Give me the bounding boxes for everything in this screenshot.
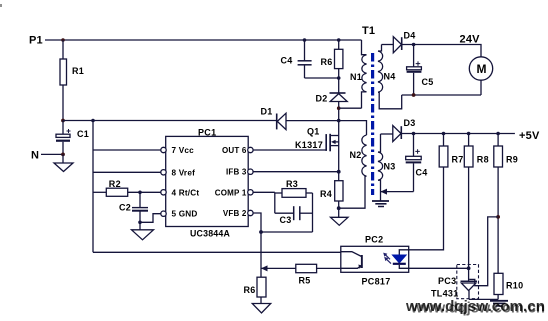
optocoupler PC2 box [341,235,409,287]
svg-text:R8: R8 [477,155,489,165]
wire R2 right lead to pin4 [128,191,161,193]
wire R2 left lead [93,191,106,193]
capacitor C1 [56,121,89,155]
winding N3 [378,134,396,201]
wire pin5 GND jog [140,214,161,223]
svg-text:R2: R2 [109,179,121,189]
wire D1 anode to drain node [286,120,339,122]
svg-text:+5V: +5V [519,130,540,142]
svg-text:N2: N2 [350,150,362,160]
wire C4 output return [381,191,414,193]
wire PC2 cathode to TL431 [409,267,469,269]
pin 1 COMP [215,188,253,197]
wire R5 left lead [261,267,296,269]
svg-text:C3: C3 [280,215,292,225]
ground below R4 [331,208,349,225]
svg-text:C2: C2 [119,203,131,213]
svg-text:VFB 2: VFB 2 [223,209,247,218]
svg-text:8 Vref: 8 Vref [172,168,196,177]
svg-text:T1: T1 [362,25,375,37]
svg-text:C5: C5 [422,77,434,87]
node N [31,150,39,162]
node R2/C2 junction [138,191,142,195]
resistor R1 [60,59,84,85]
wire pin7 Vcc [93,149,161,151]
pin 5 GND [161,210,198,219]
svg-text:TL431: TL431 [431,289,459,299]
node snubber/D2 junction [337,76,341,80]
svg-text:UC3844A: UC3844A [190,229,230,239]
svg-text:R1: R1 [72,66,84,76]
svg-text:C4: C4 [281,56,293,66]
node C5 bottom junction [412,93,416,97]
node VFB branch junction [259,230,263,234]
node R7 top junction [442,132,446,136]
resistor R7 [439,134,463,168]
capacitor C4 snubber [281,40,312,78]
transistor Q1 K1317 [295,121,339,172]
wire Vcc branch vertical [92,121,94,253]
wire N1 bottom to drain column [339,107,362,109]
winding N4 [378,45,402,109]
wire COMP to R3/C3 left bar [253,191,275,193]
svg-text:N3: N3 [384,162,396,172]
svg-text:7 Vcc: 7 Vcc [172,146,195,155]
wire R3/C3 left bar [274,192,276,213]
capacitor C5 [407,45,434,96]
wire R9 bottom to divider node [497,167,499,273]
node C1/N junction [61,153,65,157]
wire R8 bottom to TL431 cathode [468,167,470,281]
resistor R4 [320,172,343,209]
watermark [405,299,545,317]
svg-text:PC817: PC817 [362,277,391,287]
svg-text:PC2: PC2 [365,235,383,245]
pin 4 Rt/Ct [161,188,200,197]
svg-text:D1: D1 [261,107,273,117]
svg-text:IFB 3: IFB 3 [226,168,247,177]
wire N3 to D3 [381,133,393,135]
svg-text:COMP 1: COMP 1 [215,188,247,197]
node C1 top junction [61,119,65,123]
diode D3 [393,118,416,142]
svg-text:D4: D4 [404,31,416,41]
pin 7 Vcc [161,146,194,155]
node D2/N1 junction [337,106,341,110]
shunt regulator PC3 TL431 [431,265,479,300]
svg-text:D2: D2 [316,94,328,104]
resistor R5 [296,264,317,285]
ground below C2 [132,222,154,240]
wire C4 bottom to R6 bottom [305,77,339,79]
earth ground below R10 [490,301,508,306]
winding N1 [350,40,367,108]
node TL431 cathode junction [467,266,471,270]
svg-text:PC3: PC3 [438,276,456,286]
svg-text:R5: R5 [299,276,311,286]
ground below C1 [54,154,73,171]
resistor R6 lower [244,277,267,303]
svg-text:R9: R9 [506,155,518,165]
wire Vref long rail to PC2 [93,251,341,253]
svg-text:OUT 6: OUT 6 [222,146,247,155]
node C4 5V junction [412,132,416,136]
capacitor C3 [275,206,313,225]
svg-text:PC1: PC1 [198,127,216,137]
light arrows in PC2 [383,253,391,264]
svg-text:N: N [31,150,39,162]
wire R1 bottom lead [62,85,64,121]
motor M [469,57,492,95]
node N3 return arrow [381,189,388,195]
node P1 [29,35,43,47]
resistor R9 [494,134,518,168]
resistor R10 [494,273,523,299]
svg-text:C4: C4 [416,168,428,178]
node R9 top junction [496,132,500,136]
wire drain node to N2 top [339,121,367,135]
svg-text:R3: R3 [286,179,298,189]
wire 24V rail [402,45,481,57]
resistor R2 [106,179,127,196]
pin 6 OUT [222,146,253,155]
wire R7 bottom to PC2 anode [409,167,444,250]
wire VFB branch to right bar [261,231,313,233]
node R8 top junction [467,132,471,136]
node C4 snubber top junction [303,38,307,42]
wire top rail from P1 to T1 [45,39,362,41]
pin 3 IFB [226,168,253,177]
node R5 junction arrow [261,265,268,271]
wire R5 right lead to PC2 [317,267,341,269]
winding N2 [339,135,367,208]
svg-text:N4: N4 [384,72,396,82]
wire pin8 Vref [93,171,161,173]
node divider junction [496,215,500,219]
wire IFB to source node [253,171,339,173]
capacitor C4 output [406,134,428,192]
svg-text:4 Rt/Ct: 4 Rt/Ct [172,188,200,197]
svg-text:P1: P1 [29,35,43,47]
node source/R4 junction [337,170,341,174]
node Vcc branch junction [91,119,95,123]
wire N lead [41,153,63,155]
resistor R3 [275,179,313,197]
svg-text:24V: 24V [460,34,481,46]
pin 8 Vref [161,168,195,177]
svg-text:C1: C1 [77,129,89,139]
node R6 snubber top junction [337,38,341,42]
svg-text:R10: R10 [506,281,523,291]
pin 2 VFB [223,209,253,218]
wire TL431 anode rail [469,298,498,300]
capacitor C2 [119,192,148,222]
wire +5V rail [401,133,515,135]
LED of PC2 [393,250,409,268]
wire R3/C3 right bar down to VFB net [312,193,314,232]
edge artifact [0,4,2,7]
svg-text:www.dqjsw.com.cn: www.dqjsw.com.cn [410,301,545,317]
node junction P1/R1 [61,38,65,42]
svg-text:R7: R7 [452,155,464,165]
svg-text:D3: D3 [404,118,416,128]
svg-text:Q1: Q1 [307,127,320,137]
wire 24V bottom rail [402,94,481,96]
transistor phototransistor of PC2 [341,252,363,269]
wire VFB jog down [253,213,261,277]
wire ref jog [469,217,498,286]
svg-text:M: M [477,62,487,76]
diode D4 [393,31,415,53]
node 24V/C5 junction [412,43,416,47]
wire D1 rail from C1 node to D1 [63,120,277,122]
wire R1 top lead [62,40,64,59]
svg-text:5 GND: 5 GND [172,210,198,219]
resistor R6 snubber [321,40,343,78]
earth ground below N3 [372,201,389,207]
svg-text:N1: N1 [350,72,362,82]
svg-text:R6: R6 [244,285,256,295]
op-amp controller U1 PC1 box [166,127,249,238]
wire N4 to D4 [382,44,394,46]
ground below R6 lower [252,304,270,314]
svg-text:R4: R4 [320,189,332,199]
wire OUT to gate [253,149,326,151]
svg-text:R6: R6 [321,57,333,67]
node R4/N2 junction [337,206,341,210]
node drain junction [337,119,341,123]
node C2/gnd junction [138,221,142,225]
resistor R8 [464,134,489,168]
svg-text:K1317: K1317 [295,140,323,150]
diode D1 [261,107,287,130]
transformer core [371,53,374,195]
diode D2 [316,78,348,121]
